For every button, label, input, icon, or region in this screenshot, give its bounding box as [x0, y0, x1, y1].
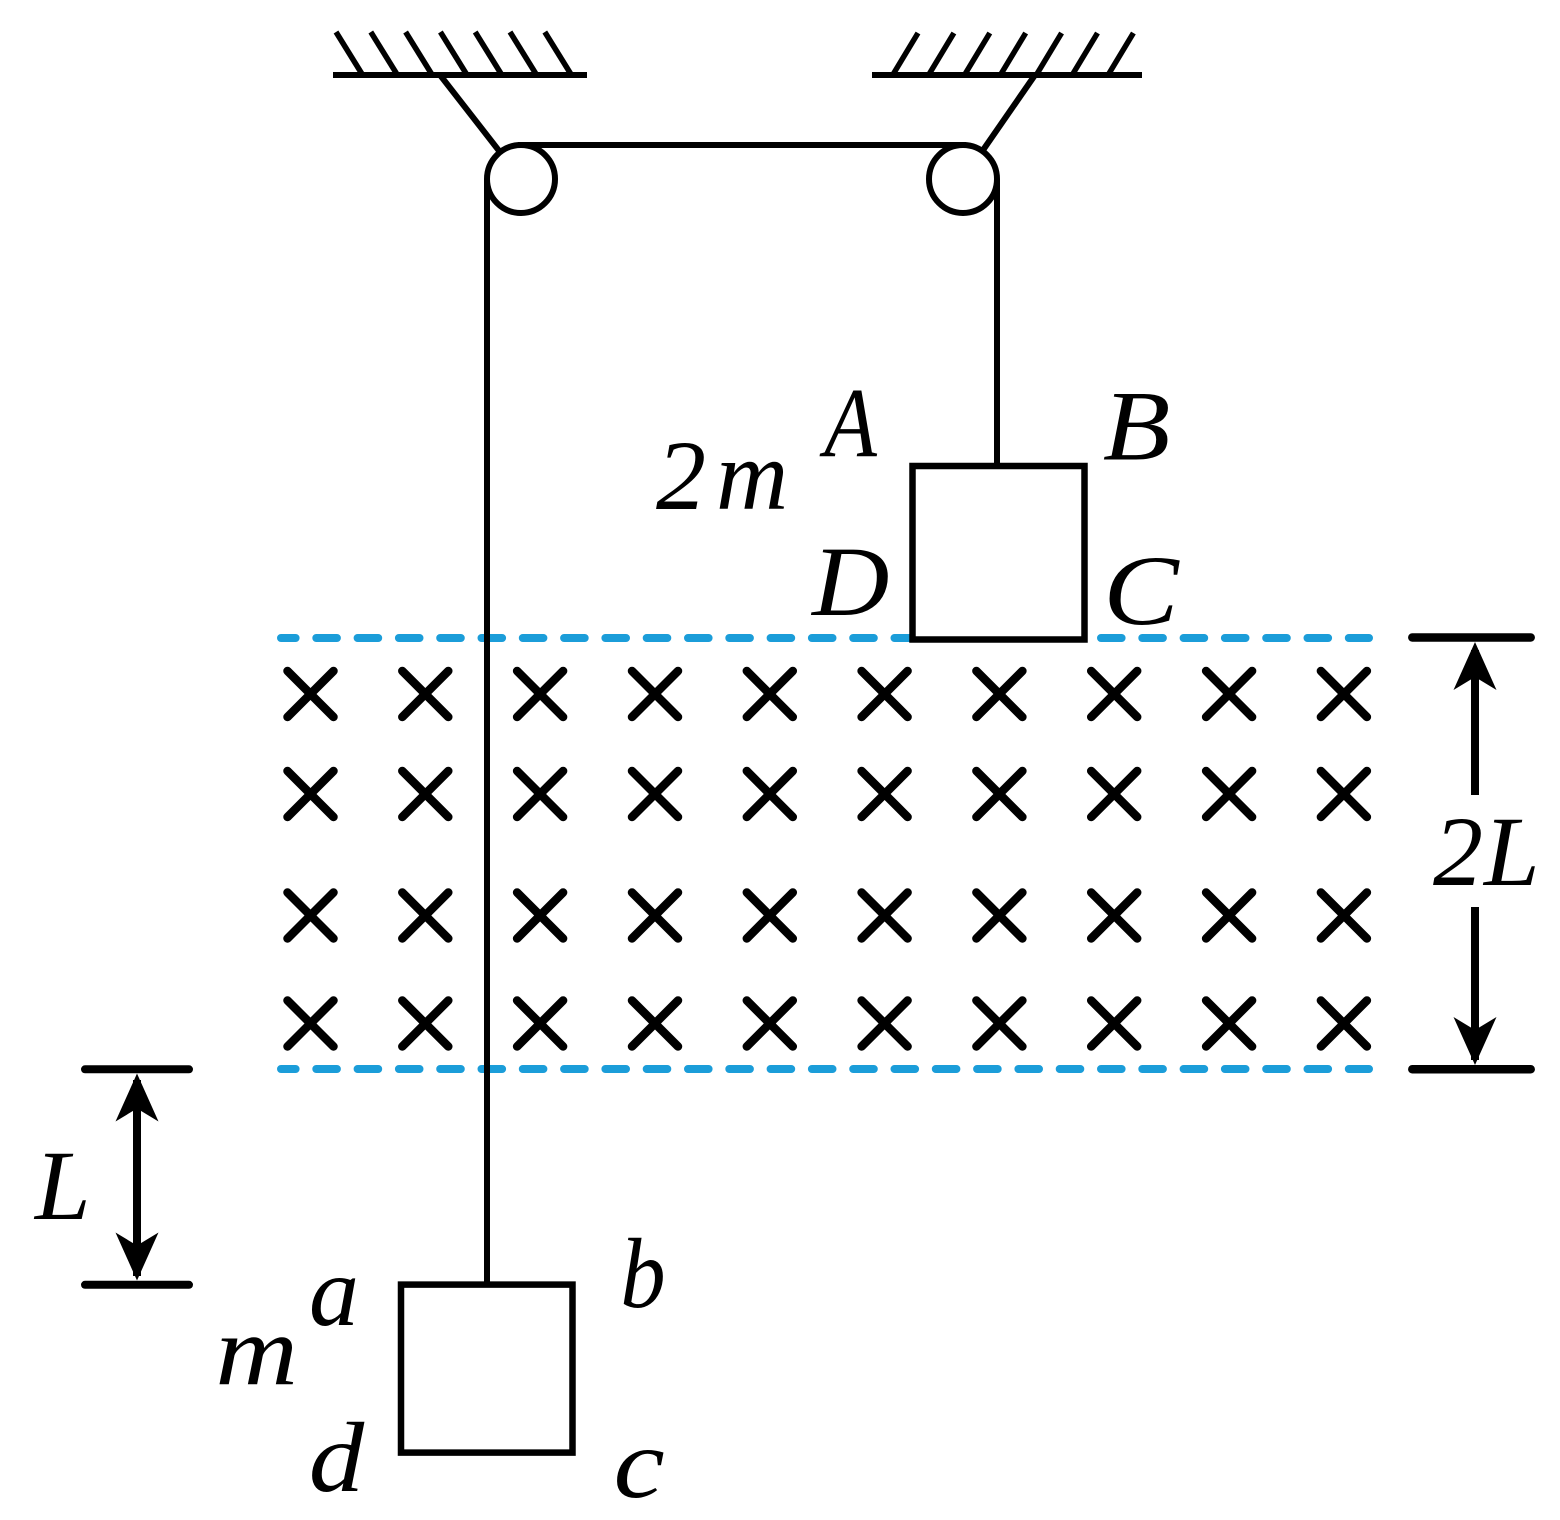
field x mark r4c1	[288, 1001, 334, 1047]
svg-text:A: A	[819, 368, 878, 478]
svg-text:a: a	[309, 1236, 359, 1347]
field x mark r1c8	[1091, 671, 1137, 717]
svg-text:L: L	[1482, 796, 1540, 907]
field boundary bottom dashed line	[281, 1065, 1369, 1073]
field x mark r2c10	[1321, 771, 1367, 817]
field x mark r2c8	[1091, 771, 1137, 817]
field x mark r4c2	[402, 1001, 448, 1047]
field x mark r3c10	[1321, 893, 1367, 939]
block 2m	[913, 466, 1085, 640]
dimension 2L upper arrow	[1471, 650, 1479, 795]
wire left rope down to block m	[484, 179, 490, 1285]
field x mark r4c3	[517, 1001, 563, 1047]
field x mark r2c3	[517, 771, 563, 817]
dimension L down arrowhead	[116, 1233, 159, 1281]
svg-text:m: m	[215, 1296, 298, 1407]
svg-text:c: c	[614, 1409, 665, 1519]
wire horizontal rope between pulleys	[518, 142, 966, 148]
field x mark r3c4	[632, 893, 678, 939]
field x mark r4c7	[976, 1001, 1022, 1047]
field x mark r1c7	[976, 671, 1022, 717]
field x mark r4c10	[1321, 1001, 1367, 1047]
field x mark r4c4	[632, 1001, 678, 1047]
svg-text:b: b	[620, 1218, 665, 1329]
field x mark r1c6	[862, 671, 908, 717]
svg-text:D: D	[810, 527, 889, 637]
block m	[401, 1285, 573, 1453]
field x mark r1c3	[517, 671, 563, 717]
dimension L top tick	[85, 1065, 189, 1073]
field x mark r1c5	[747, 671, 793, 717]
field x mark r2c9	[1206, 771, 1252, 817]
pulley right	[929, 145, 997, 213]
field x mark r2c1	[288, 771, 334, 817]
field x mark r4c5	[747, 1001, 793, 1047]
field x mark r1c4	[632, 671, 678, 717]
field x mark r3c2	[402, 893, 448, 939]
field x mark r3c9	[1206, 893, 1252, 939]
svg-text:2: 2	[1433, 796, 1483, 907]
field x mark r2c6	[862, 771, 908, 817]
svg-text:C: C	[1103, 536, 1180, 647]
dimension L bottom tick	[85, 1281, 189, 1289]
magnetic field x marks	[288, 671, 1367, 1047]
dimension L up arrowhead	[116, 1074, 159, 1122]
field x mark r3c6	[862, 893, 908, 939]
field x mark r1c9	[1206, 671, 1252, 717]
field x mark r4c9	[1206, 1001, 1252, 1047]
field x mark r4c8	[1091, 1001, 1137, 1047]
field x mark r3c1	[288, 893, 334, 939]
dimension L arrow shaft	[133, 1080, 141, 1276]
field x mark r2c2	[402, 771, 448, 817]
field x mark r3c5	[747, 893, 793, 939]
right ceiling baseline	[872, 72, 1142, 78]
field x mark r3c7	[976, 893, 1022, 939]
field x mark r4c6	[862, 1001, 908, 1047]
dimension 2L top tick	[1412, 633, 1530, 642]
right ceiling hatches	[893, 33, 1133, 75]
svg-text:2: 2	[656, 420, 706, 531]
right pulley support bar	[963, 75, 1035, 179]
left ceiling hatches	[336, 32, 571, 74]
field x mark r2c5	[747, 771, 793, 817]
svg-text:L: L	[33, 1130, 91, 1241]
svg-text:m: m	[716, 420, 788, 531]
wire right rope down to block 2m	[994, 179, 1000, 466]
field x mark r2c7	[976, 771, 1022, 817]
field x mark r3c8	[1091, 893, 1137, 939]
svg-text:d: d	[309, 1402, 366, 1513]
field x mark r1c2	[402, 671, 448, 717]
left ceiling baseline	[333, 72, 587, 78]
field x mark r1c1	[288, 671, 334, 717]
svg-text:B: B	[1103, 370, 1171, 481]
left pulley support bar	[440, 75, 521, 179]
field x mark r1c10	[1321, 671, 1367, 717]
field boundary top dashed line	[281, 634, 1369, 642]
dimension 2L bottom tick	[1412, 1065, 1530, 1074]
field x mark r2c4	[632, 771, 678, 817]
field x mark r3c3	[517, 893, 563, 939]
dimension 2L lower arrow	[1471, 907, 1479, 1060]
pulley left	[487, 145, 555, 213]
